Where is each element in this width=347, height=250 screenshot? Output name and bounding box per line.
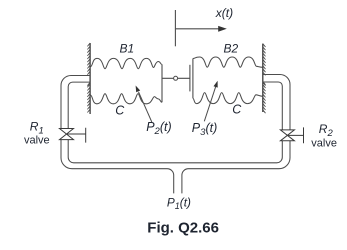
- reference line for x(t): [174, 10, 176, 46]
- svg-text:valve: valve: [311, 138, 337, 150]
- valve R2 (bowtie): [280, 130, 294, 141]
- left wall: [89, 43, 91, 114]
- left wall hatching: [87, 43, 90, 113]
- svg-text:P2(t): P2(t): [146, 120, 171, 137]
- svg-text:Fig. Q2.66: Fig. Q2.66: [147, 219, 219, 236]
- bellows B2 left plate: [192, 59, 194, 99]
- bellows B1 top wavy wall: [90, 58, 162, 68]
- bellows B2 top wavy wall: [193, 57, 263, 67]
- bellows B1 bottom wavy wall: [90, 94, 162, 104]
- node circle on rod: [174, 76, 178, 80]
- svg-text:P3(t): P3(t): [192, 121, 217, 138]
- valve R2 stem and handle: [287, 127, 303, 143]
- svg-text:x(t): x(t): [215, 6, 233, 20]
- left pipe outer line: [61, 76, 174, 194]
- svg-text:B2: B2: [224, 42, 239, 56]
- svg-text:C: C: [232, 103, 242, 117]
- bellows B2 bottom wavy wall: [193, 93, 263, 104]
- left pipe inner line: [68, 82, 282, 163]
- svg-text:valve: valve: [24, 135, 50, 147]
- connecting rod: [162, 77, 190, 79]
- svg-text:B1: B1: [120, 42, 135, 56]
- svg-text:P1(t): P1(t): [167, 195, 191, 211]
- arrow to P2(t): [139, 92, 152, 122]
- rod end plate: [189, 65, 191, 92]
- arrow x(t): [175, 28, 218, 30]
- bellows B1 end plate: [161, 64, 163, 102]
- svg-text:C: C: [115, 103, 125, 117]
- valve R1 stem and handle: [67, 128, 86, 143]
- right pipe outer line: [182, 75, 290, 194]
- arrow to P3(t): [204, 86, 216, 121]
- valve R1 (bowtie): [60, 129, 74, 140]
- right wall hatching: [263, 44, 266, 114]
- right wall: [262, 44, 264, 112]
